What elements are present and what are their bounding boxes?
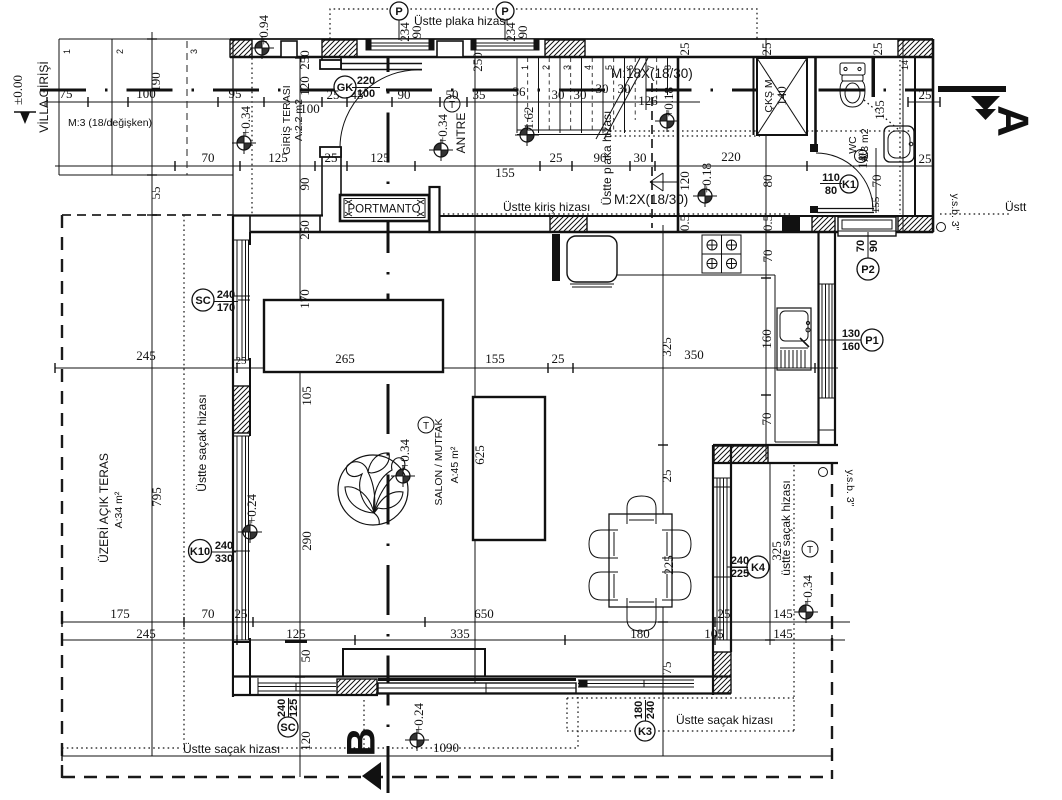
portmanto right wall bar (430, 187, 440, 232)
svg-text:25: 25 (552, 351, 565, 366)
level marker teras +0.24 (238, 521, 262, 543)
level flag +-0.00 (14, 112, 36, 124)
door jamb bottom (320, 147, 341, 157)
svg-text:155: 155 (495, 165, 515, 180)
svg-text:GİRİŞ TERASI: GİRİŞ TERASI (280, 85, 293, 154)
level marker bottom +0.24 (405, 729, 429, 751)
shaft CKS (754, 58, 808, 135)
svg-text:+0.18: +0.18 (661, 87, 676, 117)
svg-text:+0.34: +0.34 (435, 113, 450, 144)
svg-text:650: 650 (474, 606, 494, 621)
circled T salon (418, 417, 434, 433)
svg-text:180: 180 (633, 701, 645, 719)
svg-text:1: 1 (62, 49, 72, 54)
svg-text:A: A (988, 105, 1037, 137)
svg-text:140: 140 (774, 86, 789, 106)
ticks verticals (147, 39, 775, 677)
K3 marker bottom (633, 700, 657, 741)
svg-text:75: 75 (60, 86, 73, 101)
svg-text:75: 75 (659, 662, 674, 675)
svg-text:Üstte saçak hizası: Üstte saçak hizası (183, 742, 280, 756)
svg-text:ANTRE: ANTRE (454, 113, 468, 154)
kitchen cabinet (rounded) (567, 236, 617, 287)
K1 marker (820, 172, 858, 197)
svg-text:SC: SC (280, 722, 295, 734)
dim line row y=102 (47, 101, 700, 103)
dashed boundary left (61, 215, 63, 779)
dotted: right sacak (793, 465, 795, 731)
svg-text:25: 25 (919, 87, 932, 102)
north wall hatch right2 (898, 216, 933, 232)
dashed boundary bottom (62, 776, 832, 778)
entrance steps (59, 39, 233, 175)
dims row y=637 (136, 626, 793, 641)
svg-text:M:18X(18/30): M:18X(18/30) (611, 66, 693, 81)
svg-text:70: 70 (760, 250, 775, 263)
svg-text:140: 140 (855, 149, 870, 169)
svg-text:36: 36 (513, 84, 527, 99)
svg-text:330: 330 (215, 553, 233, 565)
svg-text:125: 125 (370, 150, 390, 165)
svg-text:125: 125 (268, 150, 288, 165)
left wall window L2 (234, 436, 250, 640)
svg-text:220: 220 (721, 149, 741, 164)
level marker antre2 +0.18 (693, 185, 717, 207)
rotated dims x=300 (297, 50, 314, 751)
svg-text:30: 30 (552, 87, 565, 102)
svg-text:+0.24: +0.24 (411, 702, 426, 733)
svg-text:50: 50 (446, 87, 459, 102)
svg-text:4: 4 (583, 65, 593, 70)
WC door leaf (817, 208, 874, 210)
SE corner hatch block (713, 652, 731, 693)
svg-text:90: 90 (297, 178, 312, 191)
dims row y=618 (110, 606, 793, 621)
left terrace edge x=233 (232, 39, 234, 216)
top window W1 (366, 39, 434, 50)
dims row y=358 (136, 347, 704, 366)
kitchen dark stub wall (552, 234, 560, 281)
left exterior wall (232, 216, 234, 697)
grid line x=152 (151, 32, 153, 756)
SC marker (192, 289, 250, 314)
svg-text:250: 250 (297, 220, 312, 240)
salon east wall (712, 445, 714, 695)
svg-text:240: 240 (731, 555, 749, 567)
svg-text:130: 130 (842, 328, 860, 340)
dashed boundary right (831, 462, 833, 779)
ticks row y=166 (175, 161, 807, 171)
top exterior wall (230, 38, 933, 40)
svg-text:PORTMANTO: PORTMANTO (347, 204, 420, 216)
level marker stairs 1.62 (515, 124, 539, 146)
WC divider stub (872, 57, 876, 97)
svg-text:240: 240 (276, 699, 288, 717)
svg-text:A:45 m²: A:45 m² (449, 446, 461, 483)
svg-text:240: 240 (217, 289, 235, 301)
circled S wc (855, 150, 868, 163)
P1 marker (833, 328, 883, 353)
WC cabinet in wall (838, 217, 896, 236)
kitchen counter edge (617, 274, 775, 276)
dim line row y=756 (1090) (62, 755, 832, 757)
svg-text:126: 126 (638, 93, 658, 108)
wall hatch block TL1 (230, 40, 252, 57)
svg-text:625: 625 (472, 445, 487, 465)
portmanto box (340, 195, 429, 221)
bottom window BR (578, 680, 694, 687)
salon bottom wall band (233, 675, 731, 677)
svg-text:25: 25 (677, 43, 692, 56)
section marker A (938, 89, 1037, 137)
dashed terrace top y=215 (62, 214, 233, 216)
svg-text:25: 25 (550, 150, 563, 165)
svg-text:+0.18: +0.18 (699, 163, 714, 193)
chair left1 (589, 530, 618, 558)
svg-text:325: 325 (659, 337, 674, 357)
svg-text:220: 220 (357, 75, 375, 87)
svg-text:245: 245 (136, 348, 156, 363)
svg-text:80: 80 (760, 175, 775, 188)
svg-text:30: 30 (596, 81, 609, 96)
svg-text:105: 105 (299, 386, 314, 406)
WC door swing arc (816, 153, 873, 210)
svg-text:160: 160 (842, 341, 860, 353)
svg-text:265: 265 (335, 351, 355, 366)
chair right1 (662, 530, 691, 558)
wall hatch block top-right (898, 40, 933, 57)
stairs landing edge (517, 129, 610, 131)
svg-text:120: 120 (677, 171, 692, 191)
level marker antre +0.34 (429, 139, 453, 161)
svg-text:K1: K1 (842, 179, 856, 191)
level marker terrace +0.34 (232, 132, 256, 154)
wall hatch block TL2 (322, 40, 357, 57)
svg-text:90: 90 (868, 240, 880, 252)
svg-text:25: 25 (325, 150, 338, 165)
svg-text:245: 245 (136, 626, 156, 641)
toilet (840, 63, 865, 107)
lower flight arrow M:2X (650, 173, 677, 191)
dashed stairs section x=652 (651, 83, 653, 228)
svg-text:30: 30 (574, 87, 587, 102)
wall hatch block top-mid (545, 40, 585, 57)
svg-text:155: 155 (870, 196, 882, 213)
section line B-B vertical (387, 58, 390, 793)
svg-text:125: 125 (288, 699, 300, 717)
cabinet 265 (264, 300, 443, 372)
wall pier mid (437, 41, 463, 57)
dims row y=161 (202, 149, 932, 180)
svg-text:190: 190 (148, 72, 163, 92)
svg-text:70: 70 (869, 175, 884, 188)
WC dim line (875, 148, 877, 213)
svg-text:0.5: 0.5 (677, 215, 692, 231)
svg-text:90: 90 (398, 87, 411, 102)
WC left wall (814, 57, 817, 146)
svg-text:55: 55 (148, 187, 163, 200)
stairs dashed mid-treads (528, 58, 657, 131)
svg-text:+0.34: +0.34 (397, 438, 412, 469)
svg-text:135: 135 (872, 100, 887, 120)
kitchen east wall (817, 232, 819, 445)
circled T right (802, 541, 818, 557)
svg-text:3: 3 (189, 49, 199, 54)
svg-text:y.s.b. 3": y.s.b. 3" (844, 470, 856, 507)
dotted: sacak x=184 (183, 215, 185, 753)
svg-text:50: 50 (298, 650, 313, 663)
ticks row y=102 (47, 97, 940, 107)
svg-text:30: 30 (618, 81, 631, 96)
entrance step numbers (62, 49, 199, 54)
svg-text:45: 45 (351, 87, 364, 102)
svg-text:y.s.b. 3": y.s.b. 3" (949, 194, 961, 231)
svg-text:125: 125 (286, 626, 306, 641)
svg-text:160: 160 (759, 329, 774, 349)
svg-text:95: 95 (229, 86, 242, 101)
stairs right wall (677, 57, 680, 232)
terrace step outline (343, 649, 485, 676)
dotted: kiris hizasi y=214 (443, 213, 790, 215)
chair top (627, 496, 656, 524)
svg-text:K3: K3 (638, 726, 652, 738)
svg-text:70: 70 (759, 413, 774, 426)
level marker right +0.34 (794, 601, 818, 623)
grid line x=663 (662, 225, 664, 756)
north wall dark block (782, 217, 800, 232)
dotted: bottom sacak (62, 747, 180, 749)
GK marker (334, 75, 380, 100)
svg-text:25: 25 (870, 43, 885, 56)
svg-text:P: P (395, 6, 402, 18)
svg-text:70: 70 (202, 150, 215, 165)
wc basin (884, 126, 914, 162)
WC door jambs (810, 144, 818, 152)
left wall bottom corner (233, 642, 250, 695)
stairs treads (517, 58, 668, 133)
kitchen south wall (713, 444, 838, 446)
flower planter (338, 453, 408, 525)
svg-text:120: 120 (297, 76, 312, 96)
K10 marker (189, 540, 251, 566)
svg-text:A:34 m²: A:34 m² (113, 491, 125, 528)
stove burners (707, 240, 737, 269)
svg-text:1.62: 1.62 (521, 107, 536, 130)
level marker salon +0.34 (391, 465, 415, 487)
left wall window L1 (234, 240, 250, 360)
svg-text:±0.00: ±0.00 (10, 75, 25, 105)
svg-text:P2: P2 (861, 264, 874, 276)
svg-text:25: 25 (235, 606, 248, 621)
svg-text:25: 25 (327, 87, 340, 102)
dim line row y=368 (55, 367, 838, 369)
svg-text:145: 145 (773, 626, 793, 641)
svg-text:145: 145 (773, 606, 793, 621)
chair right2 (662, 572, 691, 600)
dim line row y=166 (55, 165, 933, 167)
svg-text:795: 795 (149, 487, 164, 507)
chair bottom (627, 598, 656, 631)
svg-text:ÜZERİ AÇIK TERAS: ÜZERİ AÇIK TERAS (97, 453, 111, 563)
K4 marker (727, 555, 769, 580)
grid line x=770 (769, 463, 771, 645)
svg-text:Üstte saçak hizası: Üstte saçak hizası (676, 713, 773, 727)
svg-text:1: 1 (520, 65, 530, 70)
WC right wall (914, 57, 916, 216)
ticks row y=368 (55, 363, 815, 373)
dotted: WC x=900 (899, 60, 901, 214)
salon north wall band (233, 214, 323, 216)
wall pier (281, 41, 297, 57)
svg-text:2: 2 (541, 65, 551, 70)
svg-text:25: 25 (759, 43, 774, 56)
P top window marker 1 (390, 2, 424, 42)
bottom sliding door dark band (378, 680, 576, 694)
dashed step x=187 (186, 41, 188, 175)
svg-text:K4: K4 (751, 562, 766, 574)
svg-text:SC: SC (195, 295, 210, 307)
north wall hatch right1 (812, 216, 835, 232)
svg-text:80: 80 (825, 185, 837, 197)
dotted: terrace x=252 (251, 58, 253, 215)
svg-text:Üstte plaka hizası: Üstte plaka hizası (414, 14, 509, 28)
kitchen sink (777, 308, 811, 370)
svg-text:335: 335 (450, 626, 470, 641)
bottom window BL (258, 678, 336, 695)
svg-text:2: 2 (115, 49, 125, 54)
svg-text:170: 170 (217, 302, 235, 314)
WC dotted steps (864, 100, 899, 130)
dining table (609, 514, 672, 607)
svg-text:250: 250 (297, 50, 312, 70)
rotated dims x=663 (659, 337, 676, 674)
circled T antre (444, 96, 460, 112)
svg-text:170: 170 (297, 289, 312, 309)
svg-text:VİLLA GİRİŞİ: VİLLA GİRİŞİ (37, 61, 51, 132)
svg-text:110: 110 (822, 172, 840, 184)
svg-text:155: 155 (485, 351, 505, 366)
svg-text:240: 240 (215, 540, 233, 552)
P top window marker 2 (496, 2, 530, 42)
svg-text:3: 3 (562, 65, 572, 70)
SC2 marker bottom (276, 698, 300, 737)
svg-text:+0.24: +0.24 (244, 493, 259, 524)
terrace-antre divider wall (321, 57, 323, 69)
svg-text:175: 175 (110, 606, 130, 621)
svg-text:90: 90 (594, 150, 607, 165)
north wall hatch mid (550, 216, 587, 232)
svg-text:70: 70 (202, 606, 215, 621)
dotted: plaka hizasi mid (610, 130, 910, 132)
ticks rows bottom (62, 617, 832, 761)
grid line x=903 WC (902, 40, 904, 232)
svg-text:Üstt: Üstt (1005, 200, 1027, 214)
door jamb top (320, 60, 341, 69)
dims row y=97 (60, 81, 932, 108)
svg-text:T: T (807, 545, 813, 556)
grid line x=475 (474, 48, 476, 683)
level marker stairs +0.18 (655, 110, 679, 132)
svg-text:35: 35 (473, 87, 486, 102)
dim line row y=640 (62, 639, 845, 641)
svg-text:SALON / MUTFAK: SALON / MUTFAK (433, 419, 445, 506)
svg-text:25: 25 (919, 151, 932, 166)
svg-text:30: 30 (634, 150, 647, 165)
svg-text:25: 25 (659, 470, 674, 483)
svg-text:14: 14 (900, 60, 910, 70)
svg-text:25: 25 (718, 606, 731, 621)
dim line row y=622 (62, 621, 850, 623)
svg-text:T: T (423, 421, 429, 432)
stairs tread numbers (520, 60, 910, 70)
svg-text:290: 290 (299, 531, 314, 551)
entry door swing arc (340, 70, 422, 147)
svg-text:Üstte kiriş hizası: Üstte kiriş hizası (503, 200, 590, 214)
small circle kitchen SE (819, 468, 828, 477)
section line A-A horizontal (40, 89, 933, 92)
grid line x=300 (299, 58, 301, 777)
dotted: ustte plaka hizasi top (330, 9, 757, 39)
svg-text:+0.34: +0.34 (238, 105, 253, 136)
P2 marker (855, 232, 880, 280)
svg-text:P1: P1 (865, 335, 878, 347)
svg-text:225: 225 (731, 568, 749, 580)
kitchen east window K (819, 284, 835, 398)
stairs break line (604, 58, 648, 139)
svg-text:+0.94: +0.94 (256, 14, 271, 45)
svg-text:240: 240 (645, 701, 657, 719)
svg-text:350: 350 (684, 347, 704, 362)
svg-text:M:3 (18/değişken): M:3 (18/değişken) (68, 117, 152, 129)
svg-text:1090: 1090 (433, 740, 459, 755)
entry door leaf (341, 63, 422, 65)
svg-text:120: 120 (298, 731, 313, 751)
bottom wall hatch (337, 679, 377, 695)
svg-text:70: 70 (855, 240, 867, 252)
svg-text:225: 225 (661, 555, 676, 575)
svg-text:105: 105 (704, 626, 724, 641)
svg-text:250: 250 (470, 52, 485, 72)
svg-text:180: 180 (630, 626, 650, 641)
svg-text:K10: K10 (190, 546, 210, 558)
small circle right of WC wall (937, 223, 946, 232)
svg-text:100: 100 (300, 101, 320, 116)
svg-text:B: B (340, 728, 384, 757)
svg-text:90: 90 (515, 26, 530, 39)
east wall window E (714, 478, 731, 640)
rotated dims x=766 (759, 175, 775, 426)
stove (702, 235, 741, 273)
kitchen island (473, 397, 545, 540)
section marker B (340, 728, 384, 790)
svg-text:+0.34: +0.34 (800, 574, 815, 605)
svg-text:325: 325 (769, 541, 784, 561)
chair left2 (589, 572, 618, 600)
top window W2 (471, 39, 539, 50)
left wall hatch block (233, 386, 250, 433)
grid line x=766 (765, 38, 767, 460)
svg-text:0.5: 0.5 (760, 215, 775, 231)
kitchen south wall hatch (714, 446, 768, 463)
level marker +0.94 (250, 37, 274, 59)
svg-text:M:2X(18/30): M:2X(18/30) (614, 192, 688, 207)
svg-text:Üstte saçak hizası: Üstte saçak hizası (195, 394, 209, 491)
